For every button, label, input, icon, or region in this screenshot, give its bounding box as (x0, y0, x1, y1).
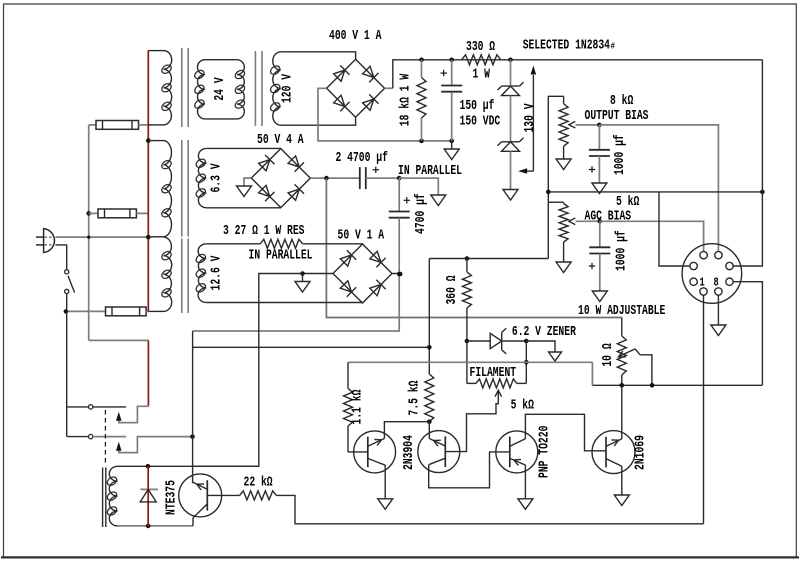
svg-text:50 V 1 A: 50 V 1 A (338, 228, 385, 244)
svg-text:150 VDC: 150 VDC (460, 114, 501, 130)
svg-text:18 kΩ 1 W: 18 kΩ 1 W (398, 73, 414, 126)
transformer T2 primary winding (148, 140, 163, 142)
measurement arrow 130 V (532, 75, 534, 171)
resistor 7.5 kOhm (425, 374, 434, 422)
bridge rectifier 50V 1A (333, 244, 392, 303)
transistor Q1 2N3904 (left) (354, 431, 396, 473)
svg-text:12.6 V: 12.6 V (209, 255, 225, 290)
svg-text:120 V: 120 V (280, 74, 296, 103)
node primary line (red) (147, 51, 149, 312)
svg-text:#: # (611, 41, 616, 52)
svg-text:10 W ADJUSTABLE: 10 W ADJUSTABLE (578, 303, 665, 319)
ground Q3 emitter (518, 499, 533, 510)
wire coil top (118, 465, 259, 467)
wire right rail down to connector (733, 60, 762, 266)
svg-text:4700 μf: 4700 μf (413, 193, 429, 234)
wire gray bias line (348, 361, 592, 363)
pin TR (715, 251, 722, 258)
svg-text:330 Ω: 330 Ω (466, 39, 495, 55)
transformer T1 24V winding (197, 60, 204, 119)
relay coil core (102, 468, 104, 528)
wire BR pin to ground (717, 295, 719, 324)
wire 22k to base line (276, 495, 703, 523)
pin RL (726, 278, 733, 285)
wire fuse bus vertical (88, 125, 90, 341)
fuse F1 (89, 124, 96, 126)
ground connector pin BR (711, 325, 726, 336)
transformer T2 6.3V winding (198, 148, 206, 207)
svg-text:NTE375: NTE375 (164, 480, 180, 515)
wire bridge1 plus to top rail (385, 87, 393, 89)
pin BL (700, 288, 707, 295)
wire 120V bottom to bridge (281, 118, 356, 126)
wire bridge1 minus to lower rail (318, 88, 452, 141)
bridge rectifier 400V 1A (327, 59, 385, 117)
transformer T3 12.6V winding (198, 244, 206, 303)
wiper 10 Ohm (619, 349, 636, 357)
ground below 150uf (451, 141, 453, 149)
transformer T1 core (181, 48, 183, 127)
zener diode 6.2 V (467, 340, 490, 342)
page border frame (3, 4, 5, 557)
wiper filament to driver base (467, 391, 499, 452)
wire Q4 emitter (621, 466, 623, 494)
zener diode D2 1N2834 (502, 141, 520, 143)
wire 120V top to bridge (281, 52, 356, 60)
wire zener rail to pot chain (548, 96, 563, 258)
wire plug bottom prong down to power switch (56, 245, 67, 270)
relay contact SW-A (89, 405, 93, 409)
svg-text:SELECTED 1N2834: SELECTED 1N2834 (523, 38, 611, 54)
transformer T3 primary winding (164, 237, 172, 311)
transistor Q4 2N1069 (592, 431, 635, 474)
ground bridge3 minus (302, 274, 304, 282)
wiper agc bias (569, 218, 575, 225)
ground below output bias pot (556, 159, 571, 170)
svg-text:8 kΩ: 8 kΩ (610, 93, 634, 109)
power switch S1 (65, 270, 69, 274)
transformer T2 core (181, 140, 183, 237)
wire branch to connector left pin (659, 192, 690, 266)
ground 6.2V zener (549, 352, 562, 361)
svg-text:FILAMENT: FILAMENT (470, 365, 517, 381)
wire relay drive vertical (192, 331, 194, 483)
wire bridge3 minus (303, 273, 334, 275)
ground below zeners (503, 190, 518, 201)
wire coil bottom (118, 525, 194, 527)
svg-text:6.3 V: 6.3 V (209, 163, 225, 192)
fuse F3 (66, 310, 106, 312)
wire bridge3 plus to cap line (392, 273, 400, 275)
transformer T1 primary winding (148, 50, 163, 52)
wire 6.3V to bridge2 (206, 147, 280, 149)
potentiometer 8 kOhm OUTPUT BIAS (563, 96, 565, 103)
wire cap B bottom down and left (193, 218, 400, 331)
ground below 1000uf agc cap (592, 291, 607, 302)
resistor FILAMENT (adjustable) (466, 341, 468, 383)
svg-text:1: 1 (700, 276, 705, 289)
svg-text:5 kΩ: 5 kΩ (511, 398, 535, 414)
svg-text:10 Ω: 10 Ω (600, 343, 616, 367)
resistor 360 Ohm (466, 259, 468, 273)
svg-text:24 V: 24 V (212, 77, 228, 101)
svg-text:IN PARALLEL: IN PARALLEL (249, 248, 313, 264)
wire BL pin down to base line (703, 295, 705, 524)
node emitter rail (592, 384, 762, 386)
svg-text:50 V 4 A: 50 V 4 A (257, 132, 304, 148)
wire gray bias line down to rail (591, 362, 593, 385)
transformer T3 core (181, 239, 183, 314)
svg-text:1000 μf: 1000 μf (612, 134, 628, 175)
ground below 1000uf output cap (592, 183, 607, 194)
pin LU (690, 262, 697, 269)
wire left to relay transistor area (193, 346, 430, 348)
mechanical link dashed (104, 410, 106, 465)
wire 330 Ohm to right rail (511, 59, 763, 61)
resistor 18 kOhm 1 W (421, 60, 423, 78)
ground Q1 emitter (378, 499, 393, 510)
svg-text:3 27 Ω 1 W RES: 3 27 Ω 1 W RES (223, 223, 305, 239)
wiper output bias (569, 121, 575, 128)
svg-text:IN PARALLEL: IN PARALLEL (398, 163, 462, 179)
svg-text:2N1069: 2N1069 (633, 435, 649, 470)
potentiometer 10 Ohm (621, 318, 623, 337)
transistor Q3 PNP TO220 (496, 431, 538, 473)
resistor 27 Ohm x3 (206, 243, 260, 245)
svg-text:1000 μf: 1000 μf (614, 230, 630, 271)
wire rail to agc pot (548, 201, 563, 203)
wire down to 7.5k (428, 259, 430, 375)
wire RL pin to lower rail (733, 282, 762, 386)
relay coil winding (109, 466, 117, 526)
ground Q4 emitter (614, 495, 629, 506)
potentiometer 5 kOhm AGC BIAS (563, 202, 565, 203)
wire output wiper to connector pin 8 (599, 125, 718, 251)
pin TL (700, 251, 707, 258)
capacitor C-A 4700 uf (359, 167, 361, 189)
wire plug top prong to primary line (56, 236, 149, 238)
wire bridge3 minus to relay circuit (193, 274, 303, 467)
zener diode D1 1N2834 (510, 60, 512, 86)
relay contact SW-B (89, 434, 93, 438)
svg-text:PNP TO220: PNP TO220 (537, 426, 553, 478)
transistor Q2 2N3904 (driver) (418, 431, 460, 473)
capacitor 150 uf 150 VDC (451, 60, 453, 86)
transformer T1 120V winding (273, 52, 281, 125)
svg-text:360 Ω: 360 Ω (444, 275, 460, 304)
pin BR (715, 288, 722, 295)
svg-text:22 kΩ: 22 kΩ (244, 475, 273, 491)
svg-text:2 4700 μf: 2 4700 μf (336, 150, 388, 166)
pin LL (690, 278, 697, 285)
wire bias feed from top rail (548, 191, 762, 193)
ground filter caps (431, 195, 446, 206)
wire bridge2 plus to caps (310, 177, 360, 179)
wire bridge2 minus to ground (244, 178, 251, 185)
svg-text:130 V: 130 V (522, 103, 538, 132)
svg-text:150 μf: 150 μf (460, 98, 495, 114)
resistor 330 Ohm 1 W (462, 55, 501, 65)
svg-text:6.2 V ZENER: 6.2 V ZENER (512, 324, 576, 340)
wire Q3 emitter (524, 465, 526, 499)
wire 12.6V bottom to bridge3 (206, 302, 362, 305)
wire switch arm A (from primary red) (89, 339, 149, 341)
svg-text:OUTPUT BIAS: OUTPUT BIAS (585, 108, 649, 124)
svg-text:8: 8 (714, 276, 719, 289)
node top rail B+ (422, 59, 511, 61)
svg-text:1 W: 1 W (473, 67, 491, 83)
fuse F2 (86, 211, 91, 216)
ground below agc bias pot (556, 262, 571, 273)
capacitor 1000 uf (agc) (599, 221, 601, 247)
wire bridge2 output down to heater rail (326, 178, 621, 317)
capacitor C-B 4700 uf (398, 178, 400, 211)
capacitor 1000 uf (output) (598, 125, 600, 150)
wire zener to ground (526, 341, 555, 352)
svg-text:400 V 1 A: 400 V 1 A (329, 28, 382, 44)
wire agc wiper to connector pin (600, 221, 704, 251)
resistor 22 kOhm (240, 491, 277, 500)
AC plug (44, 229, 55, 253)
wire switch down to relay contacts (67, 294, 89, 407)
diode across coil (147, 466, 149, 526)
wire switch arm B (119, 437, 193, 453)
wire to ground right of cap (399, 178, 438, 194)
svg-text:2N3904: 2N3904 (401, 435, 417, 470)
bridge rectifier 50V 4A (251, 149, 310, 208)
resistor 1.1 kOhm (347, 362, 349, 388)
ground bridge2 minus (237, 186, 252, 197)
transistor Q5 NTE375 (179, 474, 222, 517)
connector 8-pin socket (682, 244, 742, 304)
wire Q1 emitter (384, 465, 386, 499)
wire B- feed line (429, 258, 548, 260)
pin RU (726, 262, 733, 269)
svg-text:1.1 kΩ: 1.1 kΩ (350, 389, 366, 424)
wire between zeners (510, 96, 512, 142)
svg-text:7.5 kΩ: 7.5 kΩ (407, 380, 423, 415)
